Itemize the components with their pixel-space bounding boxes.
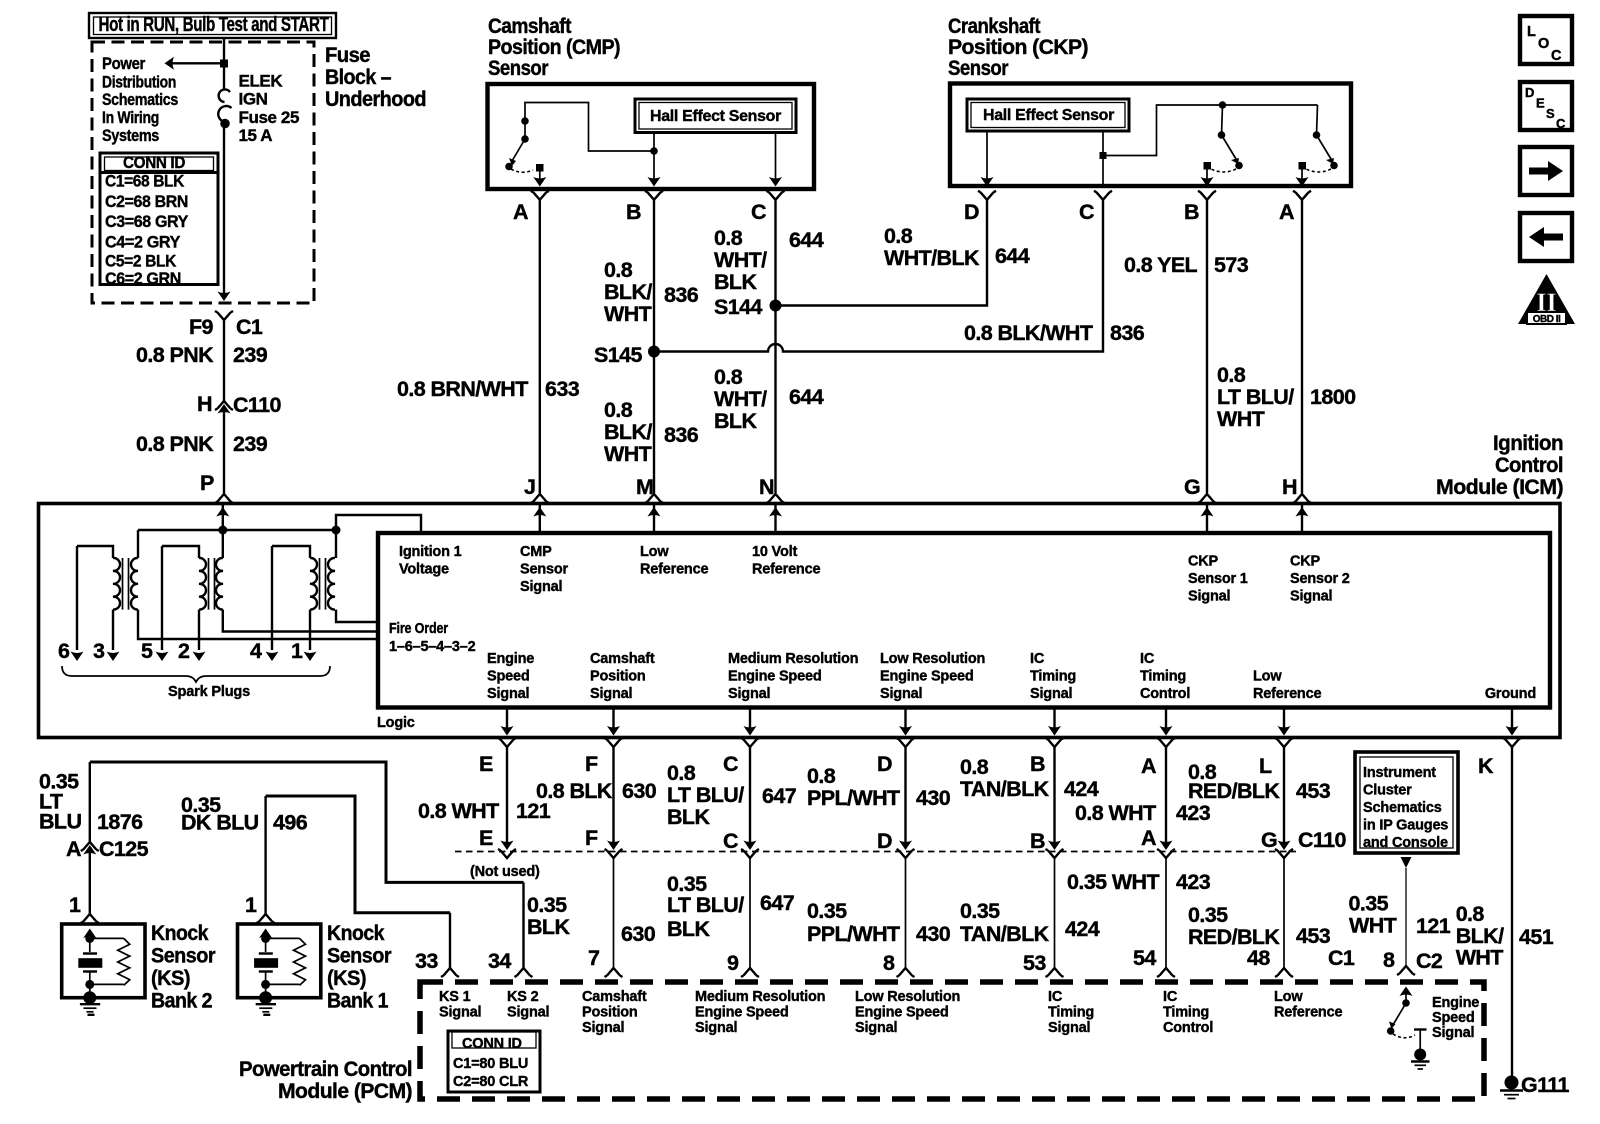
svg-text:0.35 WHT: 0.35 WHT — [1067, 870, 1159, 894]
svg-text:239: 239 — [233, 343, 268, 367]
nav icon DESC — [1520, 82, 1572, 131]
svg-text:0.8 BRN/WHT: 0.8 BRN/WHT — [397, 377, 528, 401]
svg-text:8: 8 — [1383, 948, 1395, 972]
CMP pin B stem — [648, 133, 661, 187]
svg-text:BLK/: BLK/ — [604, 280, 652, 304]
CKP internal wire C with junction — [1100, 105, 1318, 186]
svg-text:Signal: Signal — [582, 1020, 624, 1036]
svg-text:Signal: Signal — [520, 579, 562, 595]
ICM pin H arrow — [1296, 505, 1309, 533]
svg-text:Timing: Timing — [1030, 669, 1076, 685]
svg-text:H: H — [1282, 475, 1297, 499]
svg-text:C125: C125 — [99, 837, 149, 861]
svg-text:Low: Low — [1253, 669, 1282, 685]
CKP sensor box — [950, 84, 1351, 187]
svg-text:Underhood: Underhood — [325, 87, 426, 111]
svg-text:C2: C2 — [1416, 949, 1443, 973]
svg-text:KS 2: KS 2 — [507, 989, 539, 1005]
svg-text:Low: Low — [1274, 989, 1303, 1005]
svg-text:IC: IC — [1030, 651, 1045, 667]
svg-text:Engine: Engine — [1432, 995, 1479, 1011]
CKP pin D stem — [981, 131, 994, 187]
svg-text:239: 239 — [233, 432, 268, 456]
svg-text:Sensor: Sensor — [327, 944, 392, 968]
spark plugs brace — [62, 666, 330, 682]
svg-text:Signal: Signal — [1290, 589, 1332, 605]
splice S145 — [594, 343, 660, 367]
svg-text:ELEK: ELEK — [239, 72, 284, 91]
wire labels row 2 (0.35 gauge) — [527, 870, 1331, 949]
ignition coil 2 — [162, 530, 378, 650]
svg-text:LT BLU/: LT BLU/ — [1217, 385, 1294, 409]
svg-text:KS 1: KS 1 — [439, 989, 471, 1005]
svg-text:Low Resolution: Low Resolution — [880, 651, 985, 667]
svg-text:F9: F9 — [189, 315, 214, 339]
CKP switch 2 — [1296, 105, 1338, 187]
wire 0.8 PNK 239 (lower) to ICM pin P — [136, 406, 268, 503]
svg-text:Camshaft: Camshaft — [590, 651, 655, 667]
svg-text:B: B — [1030, 752, 1045, 776]
svg-text:15 A: 15 A — [239, 126, 273, 145]
svg-text:Fuse: Fuse — [325, 43, 371, 67]
CKP pin forks — [978, 191, 996, 200]
svg-text:Hall Effect Sensor: Hall Effect Sensor — [983, 107, 1114, 124]
svg-text:C: C — [723, 829, 738, 853]
ICM bottom pin D wire — [897, 708, 915, 851]
svg-text:647: 647 — [760, 891, 795, 915]
svg-text:0.8 WHT: 0.8 WHT — [1075, 801, 1156, 825]
svg-text:10 Volt: 10 Volt — [752, 544, 797, 560]
logic box — [378, 533, 1550, 708]
wire F to PCM 7 — [605, 849, 623, 977]
svg-text:1–6–5–4–3–2: 1–6–5–4–3–2 — [389, 639, 476, 655]
svg-text:WHT: WHT — [1456, 946, 1504, 970]
svg-text:0.35: 0.35 — [807, 899, 847, 923]
svg-text:in IP Gauges: in IP Gauges — [1363, 818, 1448, 834]
svg-text:Signal: Signal — [1030, 686, 1072, 702]
PCM internal labels — [439, 989, 1479, 1041]
svg-text:Control: Control — [1495, 453, 1563, 477]
ground G111 — [1500, 1073, 1569, 1099]
ICM bottom pin K wire (ground) — [1503, 708, 1521, 748]
KS bank 2 wire to PCM 34 : 0.35 LT BLU 1876 — [39, 762, 533, 977]
svg-text:BLK: BLK — [667, 805, 710, 829]
KS bank 1 wire to PCM 33 : 0.35 DK BLU 496 — [181, 793, 459, 977]
svg-text:C: C — [1551, 48, 1562, 64]
svg-text:1: 1 — [245, 893, 257, 917]
CMP internal junction — [650, 147, 658, 155]
svg-text:0.8: 0.8 — [714, 365, 743, 389]
wire CMP B to ICM M : 0.8 BLK/WHT 836 with S145 — [604, 200, 699, 503]
svg-text:WHT/: WHT/ — [714, 387, 767, 411]
svg-text:F: F — [585, 826, 598, 850]
svg-text:1: 1 — [69, 893, 81, 917]
svg-text:PPL/WHT: PPL/WHT — [807, 922, 900, 946]
svg-text:A: A — [1141, 754, 1156, 778]
svg-text:Schematics: Schematics — [1363, 800, 1442, 816]
wire S144 to CKP D : 0.8 WHT/BLK 644 — [776, 200, 1030, 306]
svg-text:5: 5 — [141, 639, 153, 663]
svg-text:O: O — [1538, 36, 1549, 52]
svg-text:WHT: WHT — [1349, 914, 1397, 938]
svg-text:121: 121 — [1416, 914, 1451, 938]
svg-text:Speed: Speed — [487, 669, 530, 685]
svg-text:PPL/WHT: PPL/WHT — [807, 786, 900, 810]
wire CKP A to ICM H : 0.8 LT BLU/WHT 1800 — [1217, 200, 1356, 503]
wire D to PCM 8 — [897, 849, 915, 977]
wire from hot feed to fuse — [223, 38, 225, 90]
svg-text:Fuse 25: Fuse 25 — [239, 108, 300, 127]
svg-text:C: C — [751, 200, 766, 224]
svg-text:A: A — [66, 837, 81, 861]
svg-text:BLK/: BLK/ — [1456, 924, 1504, 948]
svg-text:496: 496 — [273, 811, 308, 835]
CMP switch — [505, 117, 543, 172]
svg-text:CKP: CKP — [1290, 554, 1321, 570]
svg-text:C110: C110 — [1298, 828, 1346, 852]
svg-text:Signal: Signal — [1188, 589, 1230, 605]
CMP pin C stem — [769, 133, 782, 187]
CONN ID table (fuse block) — [100, 153, 218, 288]
svg-text:Sensor: Sensor — [520, 562, 569, 578]
ICM title — [1436, 431, 1563, 499]
svg-text:0.35: 0.35 — [527, 893, 567, 917]
hot in run banner box — [89, 13, 336, 38]
svg-text:C110: C110 — [233, 393, 281, 417]
ICM bottom pin A wire — [1157, 708, 1175, 851]
svg-text:WHT: WHT — [1217, 407, 1265, 431]
wire S145 to CKP C : 0.8 BLK/WHT 836 (with hop over C wire) — [654, 200, 1145, 352]
svg-text:0.8 BLK/WHT: 0.8 BLK/WHT — [964, 321, 1093, 345]
svg-text:Speed: Speed — [1432, 1010, 1475, 1026]
fuse block underhood dashed box — [92, 42, 314, 303]
svg-text:CONN ID: CONN ID — [123, 153, 185, 172]
svg-text:BLK: BLK — [714, 270, 757, 294]
svg-text:0.8: 0.8 — [667, 761, 696, 785]
svg-text:Low: Low — [640, 544, 669, 560]
svg-text:A: A — [1279, 200, 1294, 224]
CMP pin forks — [531, 191, 549, 200]
svg-text:G: G — [1184, 475, 1200, 499]
ICM bottom pin C wire — [741, 708, 759, 851]
svg-text:Spark Plugs: Spark Plugs — [168, 684, 250, 700]
svg-text:Timing: Timing — [1140, 669, 1186, 685]
logic box output labels — [487, 651, 1536, 702]
svg-text:633: 633 — [545, 377, 580, 401]
svg-text:0.8: 0.8 — [960, 755, 989, 779]
svg-text:423: 423 — [1176, 801, 1211, 825]
svg-text:M: M — [636, 475, 653, 499]
svg-text:423: 423 — [1176, 870, 1211, 894]
svg-text:D: D — [1525, 85, 1534, 100]
svg-text:(KS): (KS) — [151, 966, 190, 990]
svg-text:Signal: Signal — [1432, 1025, 1474, 1041]
svg-text:Signal: Signal — [695, 1020, 737, 1036]
svg-text:WHT/BLK: WHT/BLK — [884, 246, 980, 270]
svg-text:and Console: and Console — [1363, 835, 1448, 851]
svg-text:1800: 1800 — [1310, 385, 1356, 409]
svg-text:C1=80 BLU: C1=80 BLU — [453, 1056, 528, 1072]
svg-text:L: L — [1259, 754, 1272, 778]
svg-text:WHT: WHT — [604, 302, 652, 326]
svg-text:33: 33 — [415, 949, 438, 973]
svg-text:Position: Position — [582, 1005, 638, 1021]
ICM box — [39, 504, 1561, 738]
spark plug 2 wire — [178, 639, 206, 663]
svg-text:S145: S145 — [594, 343, 642, 367]
svg-text:0.8: 0.8 — [604, 398, 633, 422]
logic box input labels — [399, 544, 1350, 605]
ignition coil 3 — [272, 530, 378, 650]
svg-text:(Not used): (Not used) — [470, 864, 540, 880]
CMP internal wire hall to switch feed — [525, 103, 654, 152]
svg-text:BLK/: BLK/ — [604, 420, 652, 444]
wire 0.8 PNK 239 (upper) — [136, 320, 268, 401]
svg-text:Power: Power — [102, 54, 146, 73]
svg-text:Timing: Timing — [1163, 1005, 1209, 1021]
ICM bottom pin B wire — [1046, 708, 1064, 851]
svg-text:0.8 PNK: 0.8 PNK — [136, 343, 214, 367]
svg-text:C4=2 GRY: C4=2 GRY — [105, 232, 181, 251]
svg-text:Instrument: Instrument — [1363, 765, 1436, 781]
svg-text:430: 430 — [916, 786, 951, 810]
knock sensor bank 1 box — [238, 924, 321, 1015]
svg-text:453: 453 — [1296, 779, 1331, 803]
svg-text:CKP: CKP — [1188, 554, 1219, 570]
svg-text:0.8 YEL: 0.8 YEL — [1124, 253, 1198, 277]
CMP pin A stem — [533, 171, 546, 187]
svg-text:0.8: 0.8 — [714, 226, 743, 250]
svg-text:BLK: BLK — [527, 915, 570, 939]
svg-text:B: B — [1030, 829, 1045, 853]
svg-text:Timing: Timing — [1048, 1005, 1094, 1021]
ICM bottom pin E wire — [498, 708, 516, 851]
svg-text:F: F — [585, 752, 598, 776]
svg-text:0.8 PNK: 0.8 PNK — [136, 432, 214, 456]
spark plug 4 wire — [250, 546, 279, 663]
spark plug 5 wire — [141, 546, 169, 663]
svg-text:WHT/: WHT/ — [714, 248, 767, 272]
svg-text:647: 647 — [762, 784, 797, 808]
not used stub below C110 — [498, 849, 516, 858]
svg-text:IC: IC — [1048, 989, 1063, 1005]
svg-text:C1: C1 — [236, 315, 263, 339]
svg-text:E: E — [479, 826, 493, 850]
svg-text:0.8: 0.8 — [1456, 902, 1485, 926]
svg-text:TAN/BLK: TAN/BLK — [960, 777, 1050, 801]
svg-text:Control: Control — [1163, 1020, 1213, 1036]
svg-text:644: 644 — [995, 244, 1030, 268]
svg-text:Sensor 1: Sensor 1 — [1188, 571, 1248, 587]
wire labels row 1 (0.8 gauge) — [418, 755, 1331, 829]
svg-text:LT BLU/: LT BLU/ — [667, 893, 744, 917]
svg-text:836: 836 — [1110, 321, 1145, 345]
ICM pin J arrow — [533, 505, 546, 533]
svg-text:Medium Resolution: Medium Resolution — [695, 989, 825, 1005]
svg-text:L: L — [1527, 24, 1536, 40]
svg-text:G: G — [1261, 828, 1277, 852]
svg-text:Voltage: Voltage — [399, 562, 449, 578]
svg-text:Signal: Signal — [487, 686, 529, 702]
svg-text:836: 836 — [664, 423, 699, 447]
svg-text:9: 9 — [727, 951, 739, 975]
svg-text:1876: 1876 — [97, 810, 143, 834]
svg-text:630: 630 — [621, 922, 656, 946]
svg-text:E: E — [1536, 96, 1545, 111]
engine speed switch inside PCM — [1387, 987, 1430, 1070]
svg-text:Ignition 1: Ignition 1 — [399, 544, 462, 560]
svg-text:Ground: Ground — [1485, 686, 1536, 702]
svg-text:Reference: Reference — [640, 562, 708, 578]
fuse ELEK IGN Fuse 25 — [218, 72, 299, 146]
svg-text:53: 53 — [1023, 951, 1046, 975]
spark plug 1 wire — [291, 639, 317, 663]
svg-text:Sensor: Sensor — [948, 56, 1009, 80]
svg-text:Sensor 2: Sensor 2 — [1290, 571, 1350, 587]
svg-text:IGN: IGN — [239, 90, 268, 109]
svg-text:RED/BLK: RED/BLK — [1188, 779, 1280, 803]
svg-text:CMP: CMP — [520, 544, 552, 560]
svg-text:Block –: Block – — [325, 65, 392, 89]
ignition coil 1 — [77, 530, 378, 650]
svg-text:430: 430 — [916, 922, 951, 946]
svg-text:N: N — [759, 475, 774, 499]
CONN ID table (PCM) — [448, 1031, 540, 1092]
PCM pin numbers — [415, 946, 1443, 975]
svg-text:0.8: 0.8 — [1217, 363, 1246, 387]
svg-text:K: K — [1478, 754, 1494, 778]
svg-text:7: 7 — [588, 946, 600, 970]
svg-text:34: 34 — [488, 949, 511, 973]
svg-text:Control: Control — [1140, 686, 1190, 702]
svg-text:J: J — [524, 475, 535, 499]
svg-text:TAN/BLK: TAN/BLK — [960, 922, 1050, 946]
svg-text:Reference: Reference — [1253, 686, 1321, 702]
svg-text:D: D — [877, 752, 892, 776]
OBD II triangle icon — [1518, 274, 1575, 325]
svg-text:OBD II: OBD II — [1533, 314, 1561, 325]
ICM pin M arrow — [648, 505, 661, 533]
svg-text:BLK: BLK — [667, 917, 710, 941]
svg-text:S: S — [1546, 106, 1555, 121]
nav icon LOC — [1520, 16, 1572, 64]
svg-text:C2=80 CLR: C2=80 CLR — [453, 1074, 529, 1090]
ICM bottom pin F wire — [605, 708, 623, 851]
svg-text:C1: C1 — [1328, 946, 1355, 970]
svg-text:6: 6 — [58, 639, 70, 663]
svg-text:Engine Speed: Engine Speed — [728, 669, 821, 685]
wire to power distribution with left arrow — [165, 57, 229, 70]
svg-text:644: 644 — [789, 385, 824, 409]
svg-text:Systems: Systems — [102, 126, 159, 145]
svg-text:E: E — [479, 752, 493, 776]
svg-text:B: B — [626, 200, 641, 224]
ICM pin G arrow — [1201, 505, 1214, 533]
svg-text:G111: G111 — [1521, 1073, 1569, 1097]
svg-text:0.35: 0.35 — [1349, 892, 1389, 916]
svg-text:453: 453 — [1296, 924, 1331, 948]
svg-text:644: 644 — [789, 228, 824, 252]
svg-text:S144: S144 — [714, 295, 762, 319]
svg-text:Cluster: Cluster — [1363, 783, 1412, 799]
svg-text:48: 48 — [1247, 946, 1270, 970]
svg-text:Hall Effect Sensor: Hall Effect Sensor — [650, 108, 781, 125]
svg-text:54: 54 — [1133, 946, 1156, 970]
svg-text:Medium Resolution: Medium Resolution — [728, 651, 858, 667]
svg-text:Fire Order: Fire Order — [389, 621, 448, 637]
svg-text:Logic: Logic — [377, 715, 415, 731]
knock sensor bank 2 box — [62, 924, 145, 1015]
svg-text:Signal: Signal — [855, 1020, 897, 1036]
knock sensor bank 2 label — [151, 921, 216, 1013]
instrument cluster note box — [1355, 752, 1458, 853]
wire C to PCM 9 — [741, 849, 759, 977]
svg-text:Module (PCM): Module (PCM) — [278, 1079, 412, 1103]
svg-text:573: 573 — [1214, 253, 1249, 277]
svg-text:Signal: Signal — [880, 686, 922, 702]
svg-text:Sensor: Sensor — [151, 944, 216, 968]
svg-text:Distribution: Distribution — [102, 73, 176, 92]
svg-text:Signal: Signal — [590, 686, 632, 702]
svg-text:C: C — [1079, 200, 1094, 224]
ignition bus wire — [138, 515, 421, 533]
svg-text:2: 2 — [178, 639, 190, 663]
K ground wire to G111 : 0.8 BLK/WHT 451 — [1456, 747, 1554, 1078]
wire L(G) to PCM 48 — [1275, 849, 1293, 977]
svg-text:Knock: Knock — [327, 921, 385, 945]
spark plug 3 wire — [93, 639, 120, 663]
svg-text:D: D — [964, 200, 979, 224]
svg-text:Engine Speed: Engine Speed — [855, 1005, 948, 1021]
svg-text:C: C — [723, 752, 738, 776]
splice S144 — [714, 295, 782, 319]
ICM pin P arrow and bus — [216, 505, 229, 530]
svg-text:8: 8 — [883, 951, 895, 975]
svg-text:0.8: 0.8 — [884, 224, 913, 248]
spark plug 6 wire — [58, 546, 84, 663]
svg-text:C1=68 BLK: C1=68 BLK — [105, 172, 185, 191]
svg-text:In Wiring: In Wiring — [102, 108, 159, 127]
hall effect sensor box (CMP) — [635, 99, 796, 133]
wire CMP C to ICM N : 0.8 WHT/BLK 644 with S144 — [714, 200, 824, 503]
wire CMP A to ICM J : 0.8 BRN/WHT 633 — [397, 200, 580, 503]
svg-text:A: A — [513, 200, 528, 224]
connector F9 / C1 — [189, 311, 263, 339]
CKP sensor title — [948, 14, 1088, 80]
svg-text:C: C — [1556, 116, 1566, 131]
svg-text:DK BLU: DK BLU — [181, 811, 259, 835]
svg-text:Signal: Signal — [728, 686, 770, 702]
svg-text:Signal: Signal — [507, 1005, 549, 1021]
knock sensor bank 1 label — [327, 921, 392, 1013]
svg-text:B: B — [1184, 200, 1199, 224]
instrument cluster wire to PCM 8 C2 : 0.35 WHT 121 — [1349, 857, 1451, 975]
svg-text:0.8: 0.8 — [604, 258, 633, 282]
svg-text:Reference: Reference — [1274, 1005, 1342, 1021]
svg-text:Low Resolution: Low Resolution — [855, 989, 960, 1005]
wire A to PCM 54 — [1157, 849, 1175, 977]
wire CKP B to ICM G : 0.8 YEL 573 — [1124, 200, 1249, 503]
ICM pin N arrow — [769, 505, 782, 533]
svg-text:Engine Speed: Engine Speed — [880, 669, 973, 685]
svg-text:Knock: Knock — [151, 921, 209, 945]
svg-text:0.8 WHT: 0.8 WHT — [418, 799, 499, 823]
svg-text:630: 630 — [622, 779, 657, 803]
svg-text:Hot in RUN, Bulb Test and STAR: Hot in RUN, Bulb Test and START — [99, 14, 329, 36]
svg-text:IC: IC — [1163, 989, 1178, 1005]
nav icon forward arrow — [1520, 147, 1572, 195]
svg-text:A: A — [1141, 826, 1156, 850]
